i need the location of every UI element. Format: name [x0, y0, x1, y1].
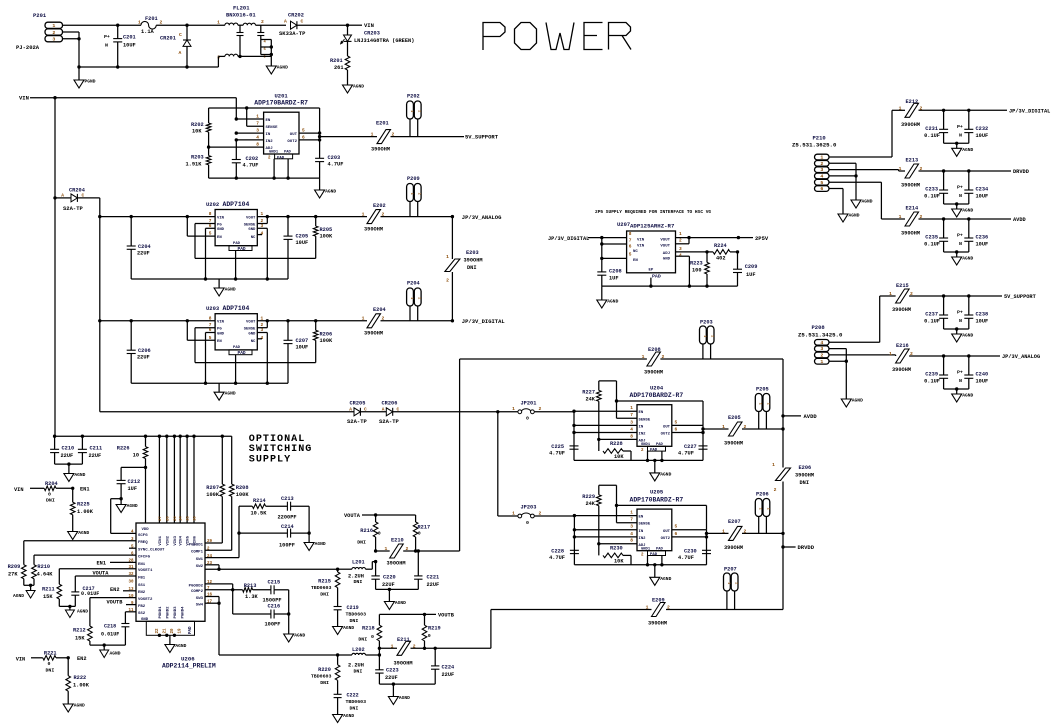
- wire U206 pad gnd: [158, 634, 176, 645]
- svg-text:VIN: VIN: [16, 657, 26, 663]
- node DRVDD: [1013, 169, 1029, 175]
- svg-text:AGND: AGND: [225, 287, 236, 293]
- svg-text:2: 2: [406, 546, 409, 552]
- wire U204 sense loop: [599, 381, 703, 426]
- svg-text:P+: P+: [957, 124, 963, 130]
- ground AGND U204: [650, 471, 672, 481]
- svg-text:30: 30: [128, 581, 134, 585]
- svg-text:AVDD: AVDD: [804, 413, 818, 420]
- svg-text:DNI: DNI: [350, 706, 359, 712]
- node VOUTA: [344, 513, 416, 519]
- wire U202 input row: [100, 215, 215, 218]
- wire VIN rail risers U206: [158, 436, 160, 523]
- capacitor C213: [278, 496, 310, 521]
- svg-text:NC: NC: [251, 236, 256, 240]
- connector P205: [755, 387, 770, 430]
- svg-text:1: 1: [772, 462, 775, 468]
- resistor R228: [599, 439, 631, 460]
- wire U204 bottom rail: [574, 451, 703, 473]
- svg-text:AGND: AGND: [294, 633, 305, 639]
- svg-text:C223: C223: [386, 668, 399, 674]
- svg-text:GND: GND: [217, 228, 225, 232]
- svg-text:10UF: 10UF: [976, 242, 989, 248]
- svg-text:DNI: DNI: [320, 592, 329, 598]
- svg-text:VDD: VDD: [142, 528, 150, 532]
- svg-text:19: 19: [179, 628, 183, 634]
- svg-text:24K: 24K: [585, 501, 595, 507]
- svg-text:P207: P207: [724, 567, 737, 573]
- svg-text:N: N: [959, 241, 962, 247]
- svg-text:JP201: JP201: [521, 401, 537, 407]
- svg-text:C235: C235: [925, 235, 938, 241]
- svg-text:VIN: VIN: [19, 95, 29, 102]
- wire VIN to U201 EN: [235, 98, 237, 119]
- capacitor C210: [50, 436, 74, 464]
- svg-text:8: 8: [630, 538, 633, 544]
- node JP/3V_DIGITAL: [451, 318, 506, 325]
- svg-text:24K: 24K: [585, 397, 595, 403]
- svg-text:NC: NC: [633, 250, 638, 254]
- svg-text:C222: C222: [347, 693, 359, 699]
- capacitor C223: [375, 648, 399, 684]
- wire U202 PG loop: [195, 224, 316, 259]
- svg-text:1.3K: 1.3K: [245, 594, 259, 600]
- svg-text:10.5K: 10.5K: [251, 511, 268, 517]
- svg-text:N: N: [959, 132, 962, 138]
- svg-text:10K: 10K: [192, 129, 202, 135]
- resistor R220: [311, 653, 340, 694]
- wire comp1 left rail: [237, 506, 240, 557]
- svg-text:1: 1: [217, 20, 220, 26]
- wire OUT to E201: [320, 136, 377, 138]
- svg-text:1UF: 1UF: [128, 486, 138, 492]
- svg-text:PG: PG: [217, 328, 222, 332]
- svg-text:PAD: PAD: [650, 553, 658, 557]
- svg-text:VOUT: VOUT: [660, 238, 670, 242]
- svg-text:1.1A: 1.1A: [141, 29, 155, 35]
- svg-text:100PF: 100PF: [279, 543, 295, 549]
- wire PGOOD1: [205, 542, 222, 544]
- svg-text:DNI: DNI: [467, 265, 477, 271]
- svg-text:6: 6: [629, 244, 632, 250]
- svg-text:A: A: [349, 407, 352, 413]
- ferrite E214: [899, 206, 923, 237]
- svg-text:22UF: 22UF: [137, 250, 150, 256]
- connector P202: [407, 94, 421, 137]
- svg-text:2: 2: [765, 403, 769, 405]
- svg-text:8: 8: [629, 231, 632, 237]
- svg-text:N: N: [959, 193, 962, 199]
- svg-text:S2A-TP: S2A-TP: [63, 205, 84, 212]
- wire P210 pin2/pin4 to gnd: [829, 163, 858, 200]
- node VOUTB U206: [107, 600, 137, 606]
- svg-text:R221: R221: [44, 651, 57, 657]
- svg-text:1: 1: [722, 424, 725, 430]
- svg-text:2: 2: [820, 161, 823, 167]
- svg-text:390OHM: 390OHM: [724, 545, 743, 551]
- svg-text:P+: P+: [957, 370, 963, 376]
- svg-text:0.01UF: 0.01UF: [101, 632, 119, 638]
- svg-text:1: 1: [899, 166, 902, 172]
- wire U203 GND right: [257, 333, 269, 385]
- wire SW1: [205, 565, 219, 569]
- svg-text:C205: C205: [296, 234, 309, 240]
- svg-text:C204: C204: [138, 244, 152, 250]
- svg-text:R208: R208: [236, 485, 249, 491]
- svg-text:U202: U202: [206, 201, 219, 208]
- svg-text:P+: P+: [104, 34, 110, 40]
- svg-text:2: 2: [417, 193, 421, 195]
- svg-text:OUT: OUT: [290, 133, 298, 137]
- wire VIN down-rail: [54, 98, 56, 437]
- svg-text:5: 5: [675, 419, 678, 425]
- svg-text:C230: C230: [684, 548, 697, 554]
- svg-text:4: 4: [630, 426, 633, 432]
- resistor R209: [8, 541, 136, 586]
- svg-text:4.7UF: 4.7UF: [678, 450, 694, 456]
- svg-text:390OHM: 390OHM: [795, 473, 814, 479]
- wire DRVDD cap gnd link: [944, 202, 969, 209]
- svg-text:DNI: DNI: [358, 637, 367, 643]
- svg-text:FB1: FB1: [138, 576, 146, 580]
- svg-text:4: 4: [820, 340, 823, 346]
- svg-text:C237: C237: [925, 312, 938, 318]
- jumper JP203: [498, 505, 575, 526]
- diode CR206: [379, 401, 518, 426]
- svg-text:SW2: SW2: [196, 565, 204, 569]
- svg-text:390OHM: 390OHM: [724, 441, 743, 447]
- svg-text:P210: P210: [813, 135, 826, 142]
- svg-text:JP/3V_DIGITAL: JP/3V_DIGITAL: [1009, 109, 1050, 115]
- svg-text:20: 20: [174, 516, 178, 521]
- svg-text:U203: U203: [206, 305, 220, 312]
- svg-text:R217: R217: [418, 525, 431, 531]
- svg-text:Z5.531.3425.0: Z5.531.3425.0: [798, 332, 843, 339]
- wire P210 pin5 to E214: [829, 182, 905, 219]
- svg-text:1.91K: 1.91K: [186, 162, 203, 168]
- connector P204: [407, 281, 421, 321]
- wire C210 C211 gnd: [55, 462, 83, 473]
- wire CR205 row: [100, 411, 354, 413]
- svg-text:SK33A-TP: SK33A-TP: [279, 30, 306, 37]
- svg-text:22UF: 22UF: [427, 582, 440, 588]
- ground AGND R211: [65, 609, 88, 618]
- svg-text:C220: C220: [383, 575, 396, 581]
- svg-text:10UF: 10UF: [976, 133, 989, 139]
- svg-text:PGND: PGND: [85, 79, 96, 85]
- svg-text:EN: EN: [217, 236, 222, 240]
- svg-text:100PF: 100PF: [265, 622, 281, 628]
- wire U204 ADJ: [597, 438, 637, 441]
- svg-text:1: 1: [512, 510, 515, 516]
- svg-text:C221: C221: [427, 575, 440, 581]
- wire COMP1: [205, 557, 239, 559]
- svg-text:C233: C233: [925, 187, 938, 193]
- svg-text:AGND: AGND: [225, 391, 236, 397]
- svg-text:1: 1: [722, 528, 725, 534]
- svg-text:P+: P+: [957, 185, 963, 191]
- svg-text:DNI: DNI: [354, 579, 363, 585]
- svg-text:1: 1: [702, 335, 706, 337]
- capacitor C238: [957, 296, 988, 329]
- svg-text:C: C: [301, 19, 304, 25]
- svg-text:E213: E213: [906, 158, 919, 164]
- svg-text:15K: 15K: [75, 636, 85, 642]
- capacitor C231: [924, 110, 948, 143]
- svg-text:AGND: AGND: [343, 625, 354, 631]
- ground AGND JP/3V_DIGITAL caps: [952, 147, 974, 157]
- ground AGND FL201: [266, 65, 288, 75]
- svg-text:EN2: EN2: [77, 656, 87, 662]
- svg-text:15: 15: [187, 516, 191, 521]
- ferrite E210: [376, 538, 460, 567]
- svg-text:OUT: OUT: [663, 530, 671, 534]
- svg-text:390OHM: 390OHM: [371, 147, 390, 153]
- capacitor C218: [101, 612, 136, 645]
- svg-text:2: 2: [417, 110, 421, 112]
- svg-text:U201: U201: [275, 93, 289, 100]
- svg-text:P+: P+: [957, 310, 963, 316]
- svg-text:DRVDD: DRVDD: [798, 544, 815, 551]
- svg-text:1.00K: 1.00K: [73, 683, 90, 689]
- svg-text:R230: R230: [610, 546, 623, 552]
- ground AGND P208: [841, 398, 863, 408]
- svg-text:0: 0: [48, 661, 51, 667]
- note optional switching supply: [249, 434, 313, 465]
- svg-text:C207: C207: [296, 338, 309, 344]
- svg-text:S2A-TP: S2A-TP: [347, 418, 368, 425]
- wire U202 SENSE tie: [257, 215, 269, 224]
- svg-text:2: 2: [261, 19, 264, 25]
- wire U203 input row: [100, 319, 215, 322]
- svg-text:P208: P208: [812, 324, 826, 331]
- svg-text:8: 8: [209, 211, 212, 217]
- capacitor C214: [239, 524, 309, 549]
- svg-text:EN2: EN2: [110, 587, 120, 593]
- svg-text:4.7UF: 4.7UF: [678, 555, 694, 561]
- svg-text:2: 2: [413, 643, 416, 649]
- wire R209 R210 gnd: [24, 584, 34, 591]
- svg-text:NC: NC: [251, 340, 256, 344]
- svg-text:COMP1: COMP1: [191, 551, 204, 555]
- svg-text:390OHM: 390OHM: [901, 183, 920, 189]
- note 2P5 supply: [595, 209, 711, 215]
- svg-text:R207: R207: [206, 485, 219, 491]
- svg-text:3: 3: [630, 419, 633, 425]
- resistor R208: [229, 436, 249, 550]
- svg-text:EN1: EN1: [138, 563, 146, 567]
- svg-text:E216: E216: [896, 343, 909, 349]
- svg-text:IN2: IN2: [639, 537, 647, 541]
- svg-text:IN: IN: [639, 530, 644, 534]
- svg-text:JP203: JP203: [521, 505, 537, 511]
- node DRVDD: [781, 544, 814, 551]
- svg-text:1: 1: [409, 297, 413, 299]
- svg-text:AGND: AGND: [849, 213, 860, 219]
- svg-text:C240: C240: [976, 372, 989, 378]
- capacitor C222: [334, 693, 367, 715]
- svg-text:PAD: PAD: [650, 449, 658, 453]
- svg-text:SUPPLY: SUPPLY: [249, 454, 291, 465]
- svg-text:IN: IN: [639, 425, 644, 429]
- svg-text:1: 1: [362, 212, 365, 218]
- svg-text:1: 1: [446, 254, 449, 260]
- svg-text:2200PF: 2200PF: [278, 515, 297, 521]
- svg-text:R226: R226: [117, 446, 130, 452]
- wire P210 pin1 to E212: [829, 110, 905, 157]
- svg-text:2: 2: [820, 353, 823, 359]
- wire VOUTB gnd rail: [379, 682, 435, 696]
- svg-text:261: 261: [334, 65, 344, 71]
- svg-text:SWITCHING: SWITCHING: [249, 444, 313, 455]
- svg-text:PGND3: PGND3: [174, 606, 178, 619]
- wire U202 EN: [187, 217, 215, 237]
- svg-text:1: 1: [820, 359, 823, 365]
- svg-text:8: 8: [630, 433, 633, 439]
- svg-text:JP/3V_DIGITAL: JP/3V_DIGITAL: [548, 236, 589, 242]
- capacitor C208: [597, 269, 621, 287]
- svg-text:2: 2: [774, 487, 777, 493]
- svg-text:R224: R224: [714, 243, 728, 249]
- svg-text:21: 21: [164, 628, 168, 634]
- svg-text:7: 7: [630, 412, 633, 418]
- svg-text:3: 3: [679, 246, 682, 252]
- svg-text:AGND: AGND: [660, 471, 671, 477]
- wire U201 bottom rail: [209, 159, 320, 180]
- wire P210 pin3 to E213: [829, 170, 905, 171]
- svg-text:1: 1: [409, 193, 413, 195]
- svg-text:10UF: 10UF: [296, 240, 309, 246]
- svg-text:C239: C239: [925, 372, 938, 378]
- svg-text:SYNC_CLKOUT: SYNC_CLKOUT: [138, 549, 165, 553]
- wire U204 EN row: [572, 410, 637, 413]
- connector P208: [798, 324, 843, 365]
- svg-text:P201: P201: [33, 12, 47, 19]
- svg-text:1: 1: [384, 546, 387, 552]
- svg-text:R211: R211: [42, 587, 55, 593]
- wire P201 pin1 to F201: [63, 24, 142, 26]
- svg-text:JP/3V_ANALOG: JP/3V_ANALOG: [1002, 354, 1040, 360]
- svg-text:PGND1: PGND1: [159, 606, 163, 619]
- svg-text:VOUT: VOUT: [246, 216, 256, 220]
- svg-text:R201: R201: [330, 58, 343, 64]
- svg-text:PJ-202A: PJ-202A: [16, 44, 40, 51]
- svg-text:22UF: 22UF: [137, 355, 150, 361]
- ferrite E213: [899, 158, 923, 189]
- capacitor C234: [957, 171, 989, 204]
- wire R211 C217 gnd: [59, 605, 75, 610]
- svg-text:A: A: [61, 193, 64, 199]
- svg-text:390OHM: 390OHM: [901, 122, 920, 128]
- svg-text:EN2: EN2: [138, 591, 146, 595]
- wire COMP2: [205, 588, 243, 614]
- resistor R207: [206, 436, 224, 543]
- capacitor C221: [414, 551, 439, 589]
- svg-text:R210: R210: [37, 564, 50, 570]
- svg-text:22UF: 22UF: [442, 672, 455, 678]
- svg-text:AGND: AGND: [962, 256, 973, 262]
- jumper JP201: [512, 401, 574, 422]
- wire U207 VIN ties: [600, 238, 627, 272]
- ground AGND R225: [68, 530, 90, 540]
- wire 5V_SUPPORT row: [909, 294, 1002, 297]
- svg-text:VIN2: VIN2: [166, 535, 170, 545]
- svg-text:4.7UF: 4.7UF: [243, 163, 259, 169]
- svg-text:AGND: AGND: [175, 643, 186, 649]
- svg-text:1: 1: [642, 354, 645, 360]
- svg-text:VOSET2: VOSET2: [138, 598, 153, 602]
- connector P209: [407, 176, 421, 217]
- svg-text:P+: P+: [957, 233, 963, 239]
- svg-text:VOUTA: VOUTA: [344, 513, 361, 519]
- svg-text:0: 0: [378, 531, 381, 537]
- wire right rail: [781, 359, 784, 610]
- svg-text:VIN1: VIN1: [159, 535, 163, 545]
- svg-text:L202: L202: [352, 647, 365, 653]
- svg-text:2: 2: [679, 237, 682, 243]
- wire bottom rail: [79, 66, 218, 68]
- svg-text:U206: U206: [181, 656, 195, 663]
- svg-text:C203: C203: [328, 155, 341, 161]
- node 5V_SUPPORT: [465, 133, 499, 140]
- connector P203: [700, 320, 715, 360]
- svg-text:1: 1: [758, 403, 762, 405]
- svg-text:1: 1: [630, 509, 633, 515]
- connector P201: [16, 12, 63, 51]
- svg-text:GND: GND: [248, 228, 256, 232]
- resistor R222: [66, 658, 90, 704]
- svg-text:10UF: 10UF: [976, 379, 989, 385]
- svg-text:R216: R216: [360, 528, 373, 534]
- svg-text:DNI: DNI: [357, 540, 366, 546]
- svg-text:C208: C208: [609, 269, 622, 275]
- diode CR201: [160, 24, 191, 69]
- svg-text:E206: E206: [799, 465, 812, 471]
- svg-text:AGND: AGND: [110, 651, 121, 657]
- wire analog rail: [460, 358, 783, 360]
- svg-text:390OHM: 390OHM: [648, 621, 667, 627]
- wire U201 EN: [235, 117, 264, 120]
- svg-text:C225: C225: [551, 444, 564, 450]
- svg-text:VIN: VIN: [217, 216, 225, 220]
- svg-text:22: 22: [156, 628, 160, 634]
- wire AVDD cap gnd link: [944, 250, 969, 257]
- wire U205 EN row: [573, 514, 637, 517]
- ic U202: [206, 201, 264, 252]
- svg-text:CR205: CR205: [350, 401, 366, 407]
- resistor R204: [14, 481, 90, 504]
- led CR203: [341, 25, 415, 56]
- svg-text:ADP170BARDZ-R7: ADP170BARDZ-R7: [630, 496, 684, 503]
- svg-text:390OHM: 390OHM: [892, 307, 911, 313]
- svg-text:1: 1: [899, 105, 902, 111]
- capacitor C212: [117, 467, 146, 500]
- svg-text:LNJ314G8TRA (GREEN): LNJ314G8TRA (GREEN): [354, 38, 414, 44]
- node JP/3V_DIGITAL: [1009, 109, 1050, 115]
- svg-text:1: 1: [899, 214, 902, 220]
- svg-text:N: N: [959, 318, 962, 324]
- capacitor C237: [924, 296, 948, 329]
- filter FL201: [187, 5, 286, 68]
- resistor R226: [117, 436, 148, 469]
- wire U201 IN2: [235, 138, 264, 141]
- svg-text:VIN: VIN: [637, 238, 645, 242]
- ground PGND: [74, 65, 96, 88]
- svg-text:P206: P206: [756, 492, 769, 498]
- svg-text:IN2: IN2: [639, 433, 647, 437]
- wire U202 VOUT row: [257, 216, 367, 218]
- wire U207 GND: [676, 256, 692, 288]
